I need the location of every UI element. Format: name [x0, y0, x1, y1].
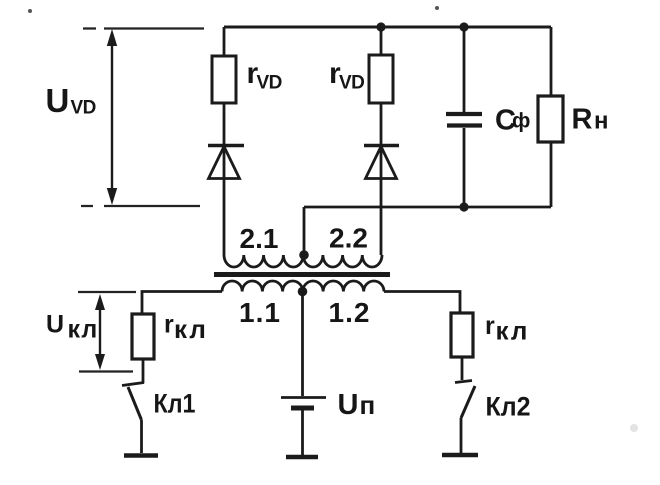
svg-text:r: r: [485, 312, 495, 340]
resistor Rn: [538, 96, 609, 142]
transformer primary winding 1.2: [303, 281, 384, 292]
wire secondary center tap riser: [303, 207, 306, 255]
wire primary right to switch branch: [384, 292, 460, 314]
diode VD1: [208, 146, 244, 179]
resistor rVD2: [369, 55, 393, 103]
svg-text:н: н: [594, 108, 609, 135]
wire bottom rail of rectifier section: [304, 206, 551, 209]
svg-text:U: U: [46, 82, 70, 119]
wire battery riser: [301, 292, 304, 397]
svg-text:кл: кл: [174, 314, 208, 344]
measurement UKl bottom reference line: [79, 370, 133, 372]
resistor rKl2: [451, 312, 529, 357]
svg-text:U: U: [338, 389, 359, 421]
ground battery: [286, 455, 318, 460]
node junction top rail / capacitor: [459, 22, 468, 31]
transformer secondary winding 2.1: [224, 255, 303, 267]
svg-text:VD: VD: [71, 98, 96, 119]
wire left diode branch vertical: [223, 27, 226, 255]
svg-text:VD: VD: [339, 73, 364, 94]
node junction top rail / diode2: [376, 22, 385, 31]
svg-text:R: R: [572, 104, 593, 136]
measurement UVD top reference line: [83, 27, 204, 29]
svg-text:п: п: [360, 390, 376, 420]
wire right diode branch vertical: [380, 27, 383, 255]
svg-text:1.2: 1.2: [329, 297, 371, 328]
measurement arrow UKl: [46, 294, 105, 370]
wire top rail: [224, 26, 551, 29]
capacitor Cf: [446, 105, 530, 137]
measurement UVD bottom reference line: [81, 205, 200, 207]
measurement UKl top reference line: [78, 291, 136, 293]
node secondary center tap: [299, 250, 309, 260]
svg-text:r: r: [164, 311, 174, 339]
svg-text:ф: ф: [512, 110, 530, 133]
ground left: [124, 453, 158, 458]
wire capacitor branch upper: [463, 27, 466, 112]
transformer secondary winding 2.2: [303, 255, 382, 267]
measurement arrow UVD: [46, 29, 118, 205]
ground right: [442, 453, 478, 458]
transformer primary winding 1.1: [222, 281, 303, 292]
svg-text:2.2: 2.2: [329, 223, 368, 254]
switch Kl2: [455, 357, 531, 453]
svg-text:VD: VD: [257, 73, 282, 94]
wire Rn branch lower: [550, 142, 553, 207]
svg-text:Кл1: Кл1: [154, 389, 196, 419]
svg-text:U: U: [46, 311, 64, 339]
diode VD2: [364, 146, 399, 179]
speck top middle: [435, 6, 439, 10]
node primary center tap: [298, 287, 308, 297]
resistor rVD1: [212, 56, 236, 103]
wire primary left to switch branch: [142, 292, 222, 315]
transformer core: [214, 272, 390, 277]
resistor rKl1: [132, 311, 208, 360]
svg-text:1.1: 1.1: [239, 297, 281, 328]
switch Kl1: [122, 359, 196, 453]
speck top left: [28, 9, 32, 13]
node junction bottom rail / capacitor: [459, 202, 468, 211]
svg-text:Кл2: Кл2: [486, 392, 531, 422]
battery Up: [281, 389, 375, 455]
svg-text:кл: кл: [496, 316, 530, 346]
svg-text:2.1: 2.1: [240, 223, 279, 254]
wire Rn branch upper: [550, 27, 553, 96]
svg-text:кл: кл: [68, 316, 99, 344]
wire capacitor branch lower: [463, 128, 466, 207]
